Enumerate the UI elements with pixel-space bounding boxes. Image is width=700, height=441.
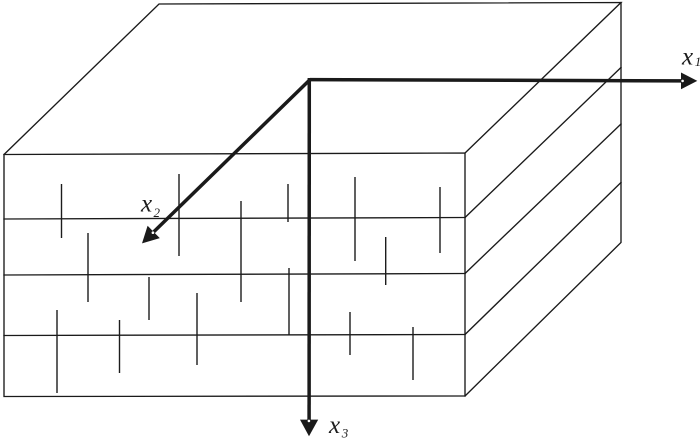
svg-text:2: 2 [154,205,161,220]
svg-text:x: x [328,412,340,439]
svg-text:1: 1 [695,54,700,69]
svg-text:x: x [140,191,152,218]
svg-text:x: x [681,44,693,71]
svg-text:3: 3 [341,425,349,440]
